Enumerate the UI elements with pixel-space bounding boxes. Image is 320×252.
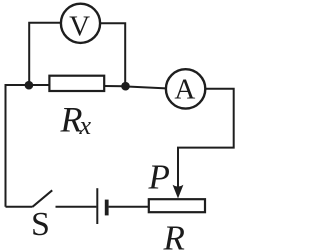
wire node B to ammeter <box>125 86 166 88</box>
wire V left lead <box>29 23 61 85</box>
svg-text:V: V <box>69 11 90 43</box>
svg-text:S: S <box>31 206 50 243</box>
svg-text:x: x <box>79 111 92 140</box>
wire node A to resistor <box>29 84 50 86</box>
rheostat R <box>149 199 205 212</box>
wire V right lead <box>100 23 125 86</box>
wire ammeter to wiper <box>178 89 234 188</box>
voltmeter V <box>61 4 100 43</box>
svg-text:R: R <box>163 219 185 252</box>
ammeter A <box>166 69 205 108</box>
resistor Rx <box>49 76 104 91</box>
node A (junction dot) <box>25 81 34 90</box>
switch S: hinge lead <box>6 206 33 208</box>
battery cell: short thick plate <box>105 200 109 216</box>
wire battery to rheostat <box>109 206 149 208</box>
wiper arrowhead P <box>173 185 184 199</box>
wire switch to battery <box>56 206 97 208</box>
wire left rail <box>6 85 29 207</box>
node B (junction dot) <box>121 82 130 91</box>
svg-text:A: A <box>174 74 195 106</box>
battery cell: long plate <box>96 188 98 224</box>
wire resistor to node B <box>104 85 125 87</box>
switch S: blade <box>33 190 53 207</box>
svg-text:P: P <box>148 158 170 197</box>
